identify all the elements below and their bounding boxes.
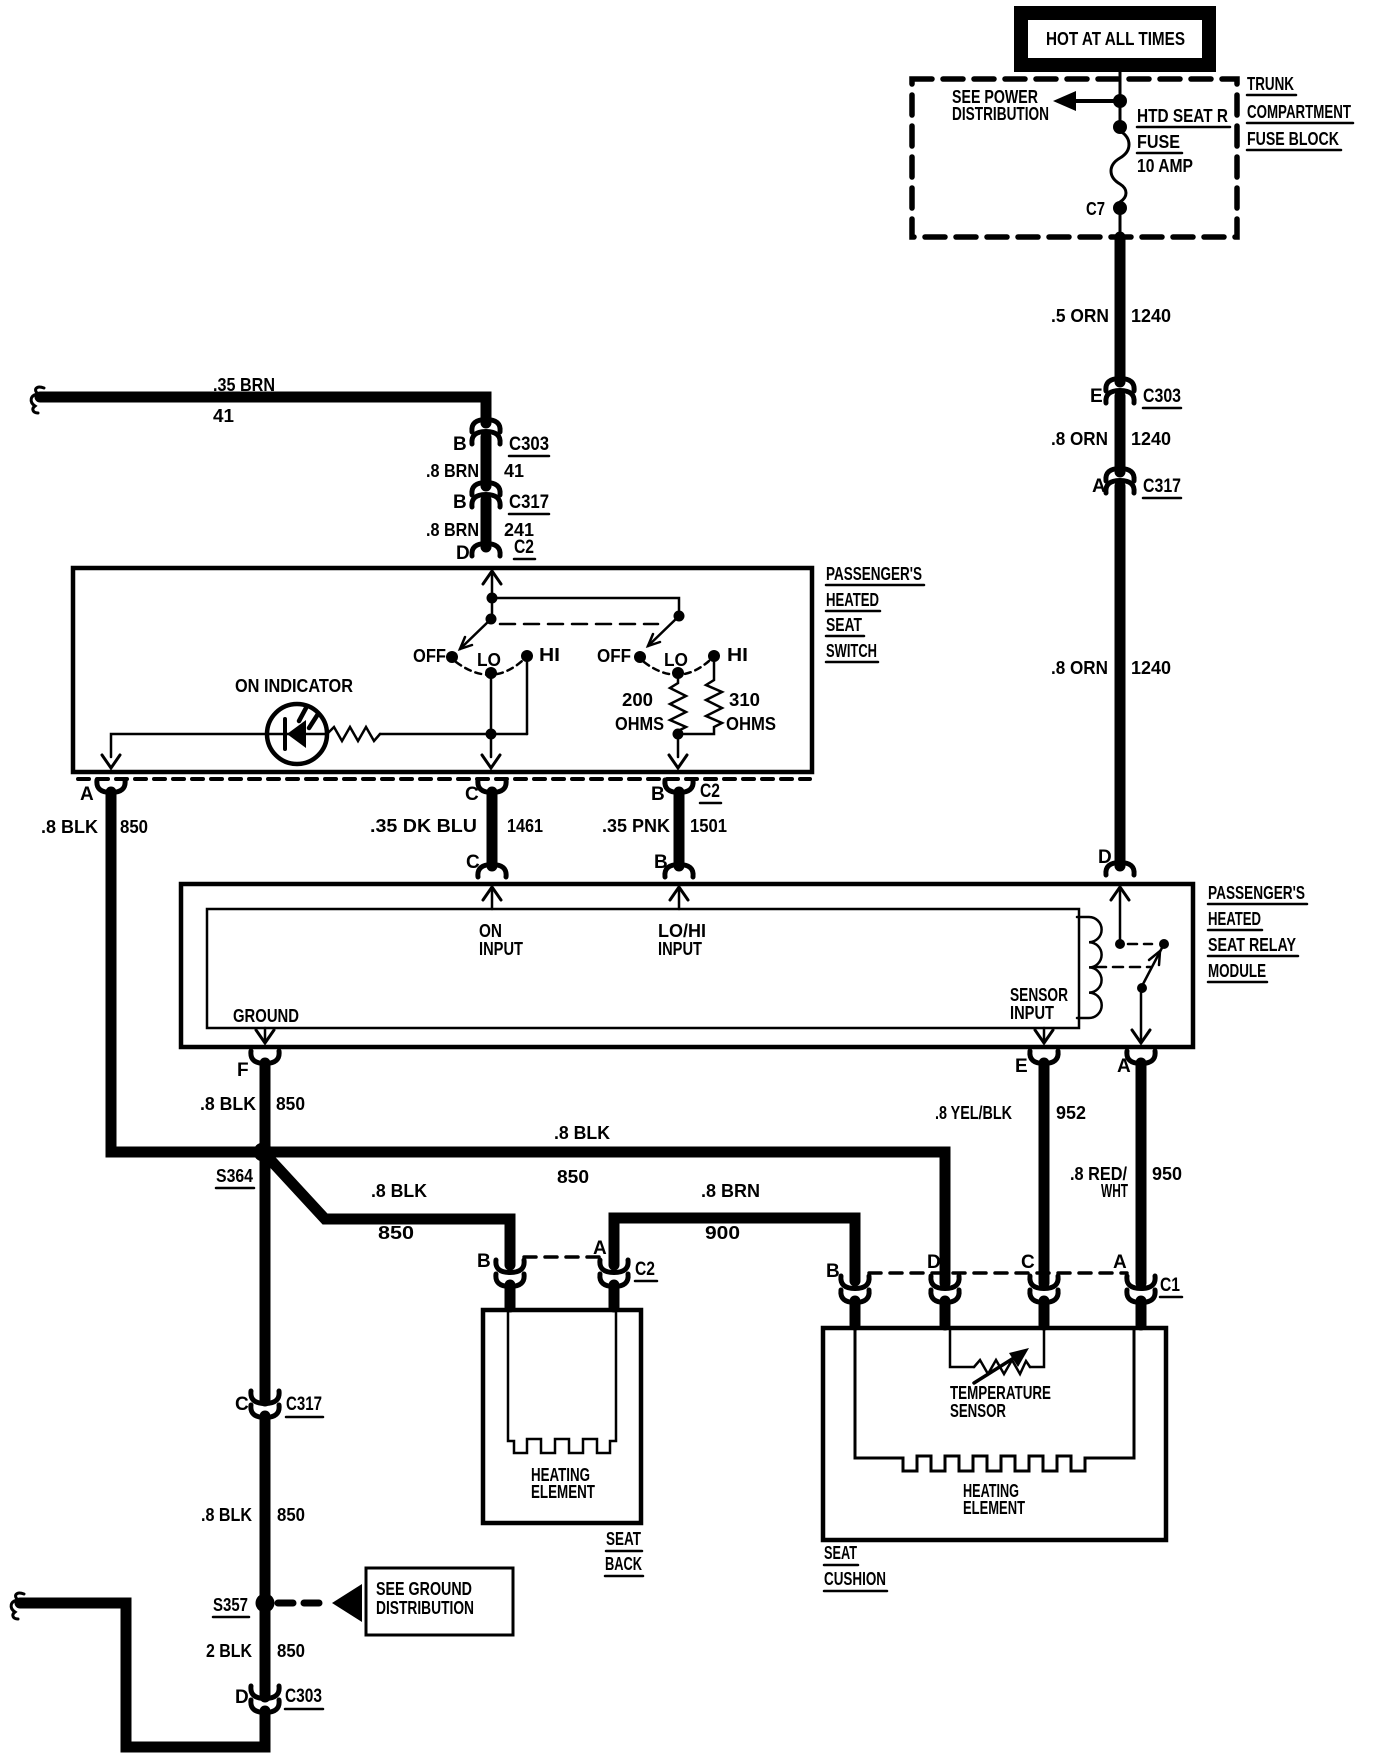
label PASSENGER'S HEATED SEAT RELAY MODULE xyxy=(1208,883,1307,982)
connector pin B into relay xyxy=(654,852,693,877)
wire .8 BLK 850 ground from F xyxy=(200,1063,305,1401)
node B output junction xyxy=(673,729,684,740)
svg-text:310: 310 xyxy=(729,690,760,710)
svg-text:OHMS: OHMS xyxy=(726,714,776,734)
SENSOR input label and arrow xyxy=(1010,985,1068,1043)
wire D into seat cushion element xyxy=(940,1301,951,1325)
wire C7 to fuse block edge xyxy=(1119,208,1122,237)
svg-text:C2: C2 xyxy=(514,537,534,558)
wire .8 RED/WHT 950 xyxy=(1070,1063,1182,1283)
svg-text:950: 950 xyxy=(1152,1164,1182,1184)
LED on indicator xyxy=(235,676,353,764)
svg-text:.8 BLK: .8 BLK xyxy=(554,1123,610,1143)
svg-text:.8 BRN: .8 BRN xyxy=(701,1181,760,1201)
svg-text:C317: C317 xyxy=(509,492,549,513)
passenger's heated seat switch box xyxy=(73,568,812,772)
label TRUNK COMPARTMENT FUSE BLOCK xyxy=(1247,74,1353,150)
dashed link feed to contact xyxy=(1128,943,1152,946)
dashed lead to ground distribution xyxy=(278,1584,362,1622)
svg-text:B: B xyxy=(651,784,665,805)
connector pin A of seat back element and C2 label xyxy=(593,1238,657,1287)
svg-text:WHT: WHT xyxy=(1101,1181,1128,1201)
wire .8 ORN 1240 upper xyxy=(1051,396,1171,472)
svg-text:200: 200 xyxy=(622,690,653,710)
svg-text:.35 DK BLU: .35 DK BLU xyxy=(370,816,477,836)
label PASSENGER'S HEATED SEAT SWITCH xyxy=(826,564,924,662)
svg-text:E: E xyxy=(1015,1056,1028,1077)
connector C303 pin B (switch feed) xyxy=(453,420,549,457)
contact OFF 1 xyxy=(413,646,458,666)
svg-text:C7: C7 xyxy=(1086,199,1105,219)
svg-text:C303: C303 xyxy=(285,1686,322,1707)
svg-text:.8 BLK: .8 BLK xyxy=(371,1181,427,1201)
svg-text:COMPARTMENT: COMPARTMENT xyxy=(1247,102,1351,122)
dashed coil linkage xyxy=(1096,966,1151,969)
svg-text:ELEMENT: ELEMENT xyxy=(531,1482,595,1502)
svg-text:D: D xyxy=(235,1687,249,1708)
svg-text:.8 ORN: .8 ORN xyxy=(1051,429,1108,449)
seat cushion box xyxy=(823,1328,1166,1540)
wire .8 BLK 850 branch to seat back xyxy=(265,1154,510,1265)
resistor 310 OHMS xyxy=(684,662,776,734)
svg-text:TEMPERATURE: TEMPERATURE xyxy=(950,1383,1051,1403)
connector pin B of seat cushion element xyxy=(826,1261,869,1303)
GROUND output arrow and label xyxy=(233,1006,299,1043)
svg-text:C: C xyxy=(465,784,479,805)
connector pin E of relay xyxy=(1015,1051,1058,1077)
svg-text:.8 BRN: .8 BRN xyxy=(426,520,479,540)
svg-text:D: D xyxy=(456,543,470,564)
trunk compartment fuse block (dashed box) xyxy=(912,79,1237,237)
svg-text:.5 ORN: .5 ORN xyxy=(1051,306,1109,326)
connector C317 pin B (switch feed) xyxy=(453,483,549,515)
relay armature xyxy=(1142,944,1164,986)
wire junction to pin B arrow xyxy=(669,734,687,768)
svg-text:C317: C317 xyxy=(286,1394,322,1415)
svg-text:F: F xyxy=(237,1060,249,1081)
svg-text:1240: 1240 xyxy=(1131,306,1171,326)
connector C317 pin A xyxy=(1092,469,1181,499)
svg-text:SEE GROUND: SEE GROUND xyxy=(376,1579,472,1599)
svg-text:C2: C2 xyxy=(635,1259,655,1280)
svg-text:SEAT: SEAT xyxy=(824,1543,857,1563)
svg-text:S357: S357 xyxy=(213,1595,248,1615)
svg-text:C303: C303 xyxy=(1143,386,1181,407)
node C output junction xyxy=(486,729,497,740)
junction dot at power feed xyxy=(1113,94,1127,108)
svg-text:D: D xyxy=(927,1252,941,1273)
connector pin A of seat cushion element and C1 label xyxy=(1113,1252,1182,1303)
wire .5 ORN 1240 xyxy=(1051,237,1171,382)
svg-text:B: B xyxy=(477,1251,491,1272)
svg-text:LO: LO xyxy=(664,650,688,670)
wire LO 1 drop xyxy=(490,673,493,734)
svg-text:.35 PNK: .35 PNK xyxy=(602,816,670,836)
junction dot above fuse xyxy=(1113,120,1127,134)
resistor 200 OHMS xyxy=(615,679,686,734)
svg-text:ON: ON xyxy=(479,921,502,941)
svg-text:HTD SEAT R: HTD SEAT R xyxy=(1137,106,1228,126)
svg-text:INPUT: INPUT xyxy=(479,939,523,959)
connector C2 dashed face at seat back xyxy=(524,1255,600,1259)
connector pin C of switch xyxy=(465,780,506,805)
svg-text:ON INDICATOR: ON INDICATOR xyxy=(235,676,353,696)
svg-text:INPUT: INPUT xyxy=(1010,1003,1054,1023)
contact LO 1 xyxy=(477,650,501,679)
wire A into seat cushion element xyxy=(1136,1301,1147,1325)
wire HI 1 drop xyxy=(526,656,529,734)
svg-text:PASSENGER'S: PASSENGER'S xyxy=(1208,883,1305,903)
temperature sensor xyxy=(950,1330,1051,1421)
svg-text:.8 BLK: .8 BLK xyxy=(41,817,98,837)
wire B into seat back element xyxy=(505,1285,516,1307)
svg-text:850: 850 xyxy=(277,1505,305,1525)
svg-text:900: 900 xyxy=(705,1223,740,1243)
svg-text:A: A xyxy=(593,1238,607,1259)
ON input arrow and label xyxy=(479,887,523,959)
splice S357 xyxy=(213,1594,275,1618)
wire .8 ORN 1240 lower xyxy=(1051,486,1171,866)
connector C303 pin E xyxy=(1090,379,1181,409)
svg-text:.8 BRN: .8 BRN xyxy=(426,461,479,481)
wire 2 BLK 850 to body ground run xyxy=(11,1593,265,1747)
switch wiper 1 xyxy=(460,619,491,649)
svg-text:B: B xyxy=(826,1261,840,1282)
node wiper pivot 1 xyxy=(486,614,497,625)
svg-text:C: C xyxy=(235,1394,249,1415)
node C7 xyxy=(1086,199,1127,219)
connector pin C of seat cushion element xyxy=(1021,1252,1058,1303)
label 2 BLK 850 xyxy=(206,1641,305,1661)
svg-text:41: 41 xyxy=(213,406,234,426)
svg-text:1240: 1240 xyxy=(1131,658,1171,678)
svg-text:SEAT RELAY: SEAT RELAY xyxy=(1208,935,1296,955)
svg-text:GROUND: GROUND xyxy=(233,1006,299,1026)
node relay feed xyxy=(1115,939,1125,949)
connector C2 dashed face under switch xyxy=(78,777,810,781)
wire .35 DK BLU 1461 xyxy=(370,792,543,866)
svg-text:C: C xyxy=(466,852,480,873)
svg-text:850: 850 xyxy=(557,1167,589,1187)
connector pin A of switch xyxy=(80,780,125,805)
svg-text:C317: C317 xyxy=(1143,476,1181,497)
label SEAT CUSHION xyxy=(824,1543,887,1591)
svg-text:E: E xyxy=(1090,386,1103,407)
svg-text:B: B xyxy=(654,852,668,873)
wire .8 YEL/BLK 952 xyxy=(935,1063,1086,1283)
wire resistor to HI/LO junction xyxy=(380,733,527,736)
svg-text:1501: 1501 xyxy=(690,816,727,836)
svg-text:MODULE: MODULE xyxy=(1208,961,1266,981)
dashed contact arc 2 xyxy=(644,661,709,675)
svg-text:850: 850 xyxy=(277,1641,305,1661)
wire .35 PNK 1501 xyxy=(602,792,727,866)
svg-text:ELEMENT: ELEMENT xyxy=(963,1498,1025,1518)
svg-text:C1: C1 xyxy=(1160,1275,1180,1296)
svg-text:CUSHION: CUSHION xyxy=(824,1569,886,1589)
switch wiper 2 xyxy=(648,616,679,646)
wire .8 BRN 41 xyxy=(426,437,524,486)
svg-text:HEATED: HEATED xyxy=(826,590,879,610)
svg-text:41: 41 xyxy=(504,461,524,481)
node relay armature pivot xyxy=(1137,983,1147,993)
relay fixed contact xyxy=(1159,939,1169,949)
svg-text:.8 ORN: .8 ORN xyxy=(1051,658,1108,678)
svg-text:C: C xyxy=(1021,1252,1035,1273)
relay output A line and arrow xyxy=(1132,988,1150,1043)
connector C317 pin C (ground wire) xyxy=(235,1391,323,1418)
connector pin F of relay xyxy=(237,1051,279,1081)
svg-text:1240: 1240 xyxy=(1131,429,1171,449)
svg-text:SENSOR: SENSOR xyxy=(950,1401,1006,1421)
svg-text:.8 YEL/BLK: .8 YEL/BLK xyxy=(935,1103,1012,1123)
svg-text:HOT AT ALL TIMES: HOT AT ALL TIMES xyxy=(1046,29,1185,49)
see ground distribution box xyxy=(366,1568,513,1635)
svg-text:10 AMP: 10 AMP xyxy=(1137,156,1193,176)
svg-text:A: A xyxy=(1113,1252,1127,1273)
linkage dashed line between wipers xyxy=(500,623,658,626)
wire .8 BLK 850 from pin A xyxy=(41,792,945,1283)
passenger's heated seat relay module box xyxy=(181,884,1193,1047)
svg-text:A: A xyxy=(1092,476,1106,497)
wire .8 BRN 241 xyxy=(426,500,534,547)
wire LED to pin A drop xyxy=(102,734,267,768)
svg-text:850: 850 xyxy=(120,817,148,837)
svg-text:FUSE BLOCK: FUSE BLOCK xyxy=(1247,129,1339,149)
connector C2 pin D into switch xyxy=(456,537,535,564)
seat back heating element box xyxy=(483,1310,641,1523)
contact HI 2 xyxy=(708,645,748,665)
splice S364 xyxy=(216,1143,273,1189)
resistor of on indicator xyxy=(327,727,380,741)
svg-text:INPUT: INPUT xyxy=(658,939,702,959)
relay D feed line and arrow xyxy=(1111,887,1129,944)
svg-text:SEAT: SEAT xyxy=(826,615,862,635)
svg-text:C2: C2 xyxy=(700,781,720,802)
wire .35 BRN 41 (top left) xyxy=(31,375,486,426)
wire branch to second wafer xyxy=(492,598,679,616)
connector pin A of relay xyxy=(1117,1051,1155,1077)
wire C into seat cushion element xyxy=(1039,1301,1050,1325)
svg-text:HI: HI xyxy=(727,645,748,665)
svg-text:TRUNK: TRUNK xyxy=(1247,74,1294,94)
fuse HTD SEAT R FUSE 10 AMP xyxy=(1111,106,1230,202)
svg-text:S364: S364 xyxy=(216,1166,253,1186)
svg-text:952: 952 xyxy=(1056,1103,1086,1123)
svg-text:OFF: OFF xyxy=(413,646,446,666)
svg-text:PASSENGER'S: PASSENGER'S xyxy=(826,564,922,584)
wire .8 BLK 850 trunk run labels xyxy=(554,1123,610,1187)
svg-text:A: A xyxy=(80,784,94,805)
wire to fuse xyxy=(1119,101,1122,127)
relay coil xyxy=(1077,917,1102,1018)
svg-text:SENSOR: SENSOR xyxy=(1010,985,1068,1005)
svg-text:.8 BLK: .8 BLK xyxy=(200,1094,256,1114)
connector pin C into relay xyxy=(466,852,506,877)
connector C1 dashed face at seat cushion xyxy=(869,1271,1127,1275)
svg-text:SWITCH: SWITCH xyxy=(826,641,877,661)
connector pin B of switch and C2 label xyxy=(651,780,721,805)
node switch feed branch xyxy=(487,593,498,604)
svg-text:OHMS: OHMS xyxy=(615,714,664,734)
dashed contact arc 1 xyxy=(456,661,522,675)
svg-text:LO/HI: LO/HI xyxy=(658,921,706,941)
svg-text:1461: 1461 xyxy=(507,816,543,836)
svg-text:D: D xyxy=(1098,847,1112,868)
wire A into seat back element xyxy=(609,1285,620,1307)
svg-text:BACK: BACK xyxy=(605,1554,642,1574)
svg-text:.35 BRN: .35 BRN xyxy=(213,375,275,395)
contact LO 2 xyxy=(664,650,688,679)
svg-text:OFF: OFF xyxy=(597,646,631,666)
connector C2 pin D into relay module xyxy=(1098,847,1134,875)
wire junction to pin C arrow xyxy=(482,734,500,768)
svg-text:2 BLK: 2 BLK xyxy=(206,1641,252,1661)
svg-text:B: B xyxy=(453,434,467,455)
wire B into seat cushion element xyxy=(850,1301,861,1325)
svg-text:.8 BLK: .8 BLK xyxy=(201,1505,252,1525)
see power distribution arrow xyxy=(952,87,1120,124)
label SEAT BACK xyxy=(605,1529,643,1576)
connector pin B of seat back element xyxy=(477,1251,524,1287)
svg-text:DISTRIBUTION: DISTRIBUTION xyxy=(376,1598,474,1618)
svg-text:HI: HI xyxy=(539,645,560,665)
svg-text:B: B xyxy=(453,492,467,513)
wire from HOT banner into fuse block xyxy=(1119,72,1122,101)
contact HI 1 xyxy=(521,645,560,665)
svg-text:SEAT: SEAT xyxy=(606,1529,641,1549)
svg-text:HEATED: HEATED xyxy=(1208,909,1261,929)
wire .8 BRN 900 xyxy=(614,1181,855,1281)
svg-text:850: 850 xyxy=(276,1094,305,1114)
switch feed entry arrow and riser xyxy=(483,571,501,619)
connector C303 pin D (ground wire) xyxy=(235,1686,323,1713)
svg-text:A: A xyxy=(1117,1056,1131,1077)
svg-text:DISTRIBUTION: DISTRIBUTION xyxy=(952,104,1049,124)
svg-text:FUSE: FUSE xyxy=(1137,132,1180,152)
svg-text:C303: C303 xyxy=(509,434,549,455)
connector pin D of seat cushion element xyxy=(927,1252,959,1303)
contact OFF 2 xyxy=(597,646,646,666)
node wiper pivot 2 xyxy=(674,611,685,622)
svg-text:LO: LO xyxy=(477,650,501,670)
power banner HOT AT ALL TIMES xyxy=(1014,6,1216,72)
LO/HI input arrow and label xyxy=(658,887,706,959)
svg-text:850: 850 xyxy=(378,1223,414,1243)
wire .8 BLK 850 to S357 xyxy=(201,1416,305,1697)
seat cushion heating element outline xyxy=(855,1330,1134,1518)
